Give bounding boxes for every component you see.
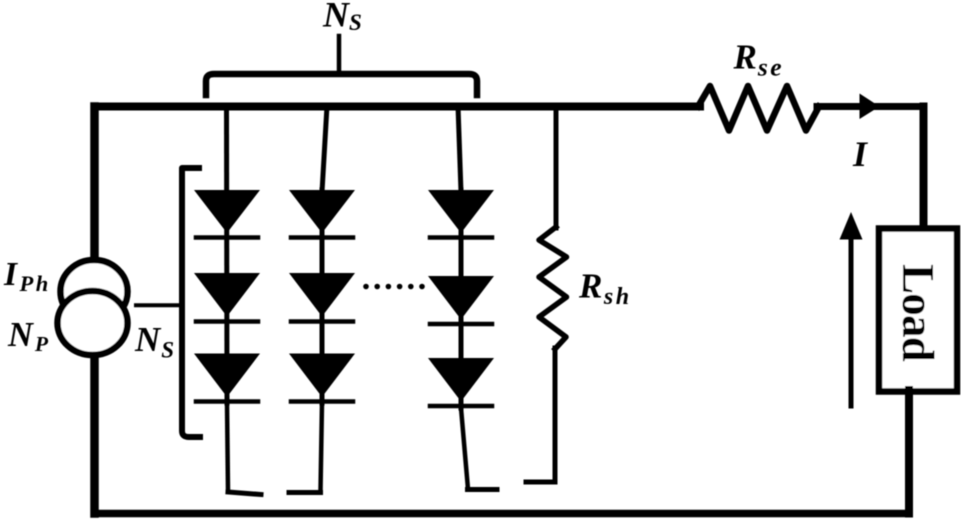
diode D1-2 xyxy=(194,273,260,317)
arrow up (load current) xyxy=(849,236,854,406)
ellipsis dots xyxy=(363,284,425,290)
svg-text:NS: NS xyxy=(134,320,174,363)
resistor R_sh zigzag xyxy=(539,227,567,349)
wire after R_se xyxy=(817,103,924,110)
current source I_Ph (two circles) xyxy=(61,260,128,323)
svg-text:NP: NP xyxy=(7,316,49,356)
column 1 foot xyxy=(228,492,261,495)
resistor R_sh wire top xyxy=(554,106,559,228)
wire top rail xyxy=(95,103,701,111)
R_sh foot xyxy=(526,480,555,485)
wire bottom rail xyxy=(95,510,910,518)
column 3 foot xyxy=(468,487,498,492)
diode D2-3 xyxy=(289,354,355,398)
diode string column 2 wire xyxy=(322,106,327,192)
wire right vertical xyxy=(920,107,928,234)
svg-text:Rsh: Rsh xyxy=(578,267,632,310)
diode D3-3 xyxy=(428,358,494,402)
resistor R_sh wire bottom xyxy=(553,348,558,481)
svg-text:Load: Load xyxy=(893,264,943,362)
wire stub from source to Ns bracket xyxy=(136,303,179,307)
svg-text:IPh: IPh xyxy=(3,256,51,296)
brace tick xyxy=(337,36,342,70)
diode string column 3 wire xyxy=(458,106,461,192)
diode D3-2 xyxy=(428,276,494,320)
diode D3-1 xyxy=(428,190,494,233)
arrowhead current I xyxy=(860,94,880,120)
diode D2-1 xyxy=(289,190,355,233)
diode string column 1 wire xyxy=(224,106,230,403)
diode D1-1 xyxy=(194,190,260,233)
svg-text:NS: NS xyxy=(322,0,362,35)
diode D1-3 xyxy=(194,354,260,398)
diode D2-2 xyxy=(289,273,355,317)
resistor R_se zigzag xyxy=(698,86,819,131)
top brace N_S xyxy=(206,74,477,95)
load box xyxy=(879,229,957,392)
wire load bottom xyxy=(905,390,913,514)
svg-text:Rse: Rse xyxy=(733,38,785,82)
bracket N_S left xyxy=(182,168,200,437)
svg-text:I: I xyxy=(852,134,869,174)
wire left vertical xyxy=(90,107,99,514)
column 2 foot xyxy=(289,490,321,495)
